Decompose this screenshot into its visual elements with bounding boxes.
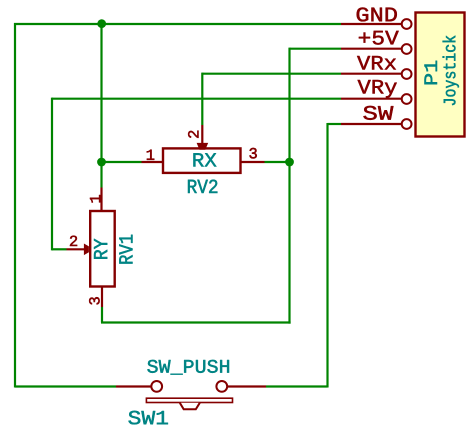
- wire VRy vertical: [51, 98, 53, 251]
- wire RY pin3 bottom horizontal: [101, 321, 291, 323]
- RV1 pin2 line: [67, 248, 88, 250]
- pin GND circle: [402, 19, 412, 29]
- potentiometer RV1 body: [90, 211, 115, 287]
- wire VRx horizontal: [202, 73, 341, 75]
- label SW_PUSH: [147, 360, 229, 375]
- wire VRy to RY pin2: [52, 248, 67, 250]
- wire GND left vertical: [14, 23, 16, 388]
- wire SW vertical: [326, 123, 328, 388]
- pin GND line: [341, 23, 402, 25]
- RV2 pin2 arrowhead: [197, 143, 209, 150]
- potentiometer RV2 body: [163, 148, 241, 173]
- RV2 pin1 line: [142, 161, 164, 163]
- wire VRx vertical: [201, 73, 203, 125]
- RV2 pin2 line: [201, 125, 203, 146]
- RV1 pin3 number 3: [89, 297, 100, 304]
- RV1 pin1 number 1: [90, 195, 100, 202]
- label RY: [94, 239, 107, 259]
- RV1 pin2 arrowhead: [84, 244, 89, 256]
- pin label VRx: [357, 56, 396, 70]
- RV1 pin2 number 2: [70, 236, 77, 246]
- pin SW circle: [402, 119, 412, 129]
- wire GND bottom to switch: [15, 385, 116, 387]
- reference SW1: [128, 411, 167, 425]
- wire +5V vertical: [288, 48, 290, 324]
- pin label GND: [357, 7, 397, 21]
- pin +5V circle: [402, 44, 412, 54]
- wire +5V horizontal: [290, 48, 342, 50]
- RV2 pin3 line: [241, 161, 265, 163]
- wire VRy horizontal: [52, 98, 341, 100]
- RV1 pin1 line: [100, 188, 102, 212]
- reference P1: [424, 61, 437, 85]
- wire GND vertical to pots pin1: [100, 24, 102, 188]
- pin VRy circle: [402, 94, 412, 104]
- switch SW1 pin right line: [228, 385, 266, 387]
- switch SW1 bar: [146, 398, 232, 402]
- wire RX pin3 stub: [265, 161, 290, 163]
- value RV1: [119, 235, 132, 264]
- switch SW1 left terminal circle: [151, 381, 162, 392]
- value RV2: [188, 180, 217, 193]
- RV2 pin3 number 3: [249, 148, 256, 159]
- switch SW1 right terminal circle: [216, 381, 227, 392]
- RV2 pin2 number 2: [188, 131, 198, 138]
- pin VRx line: [341, 73, 402, 75]
- wire GND horizontal top: [14, 23, 341, 25]
- connector P1 body: [416, 13, 465, 137]
- pin SW line: [341, 123, 402, 125]
- junction top GND: [97, 19, 106, 28]
- pin label VRy: [358, 80, 397, 98]
- wire to RX pin1: [102, 161, 142, 163]
- pin VRy line: [341, 98, 402, 100]
- wire RY pin3 vertical: [101, 307, 103, 323]
- pin VRx circle: [402, 69, 412, 79]
- switch SW1 pin left line: [116, 385, 151, 387]
- junction RX pin1: [97, 158, 106, 167]
- wire SW bottom to switch: [266, 385, 328, 387]
- RV1 pin3 line: [101, 287, 103, 308]
- value Joystick: [443, 36, 459, 105]
- RV2 pin1 number 1: [147, 150, 154, 160]
- junction RX pin3: [285, 158, 294, 167]
- pin +5V line: [341, 48, 402, 50]
- pin label +5V: [359, 31, 399, 45]
- label RX: [193, 153, 216, 166]
- pin label SW: [363, 106, 393, 120]
- wire SW horizontal: [328, 123, 342, 125]
- switch SW1 button bump: [180, 403, 200, 410]
